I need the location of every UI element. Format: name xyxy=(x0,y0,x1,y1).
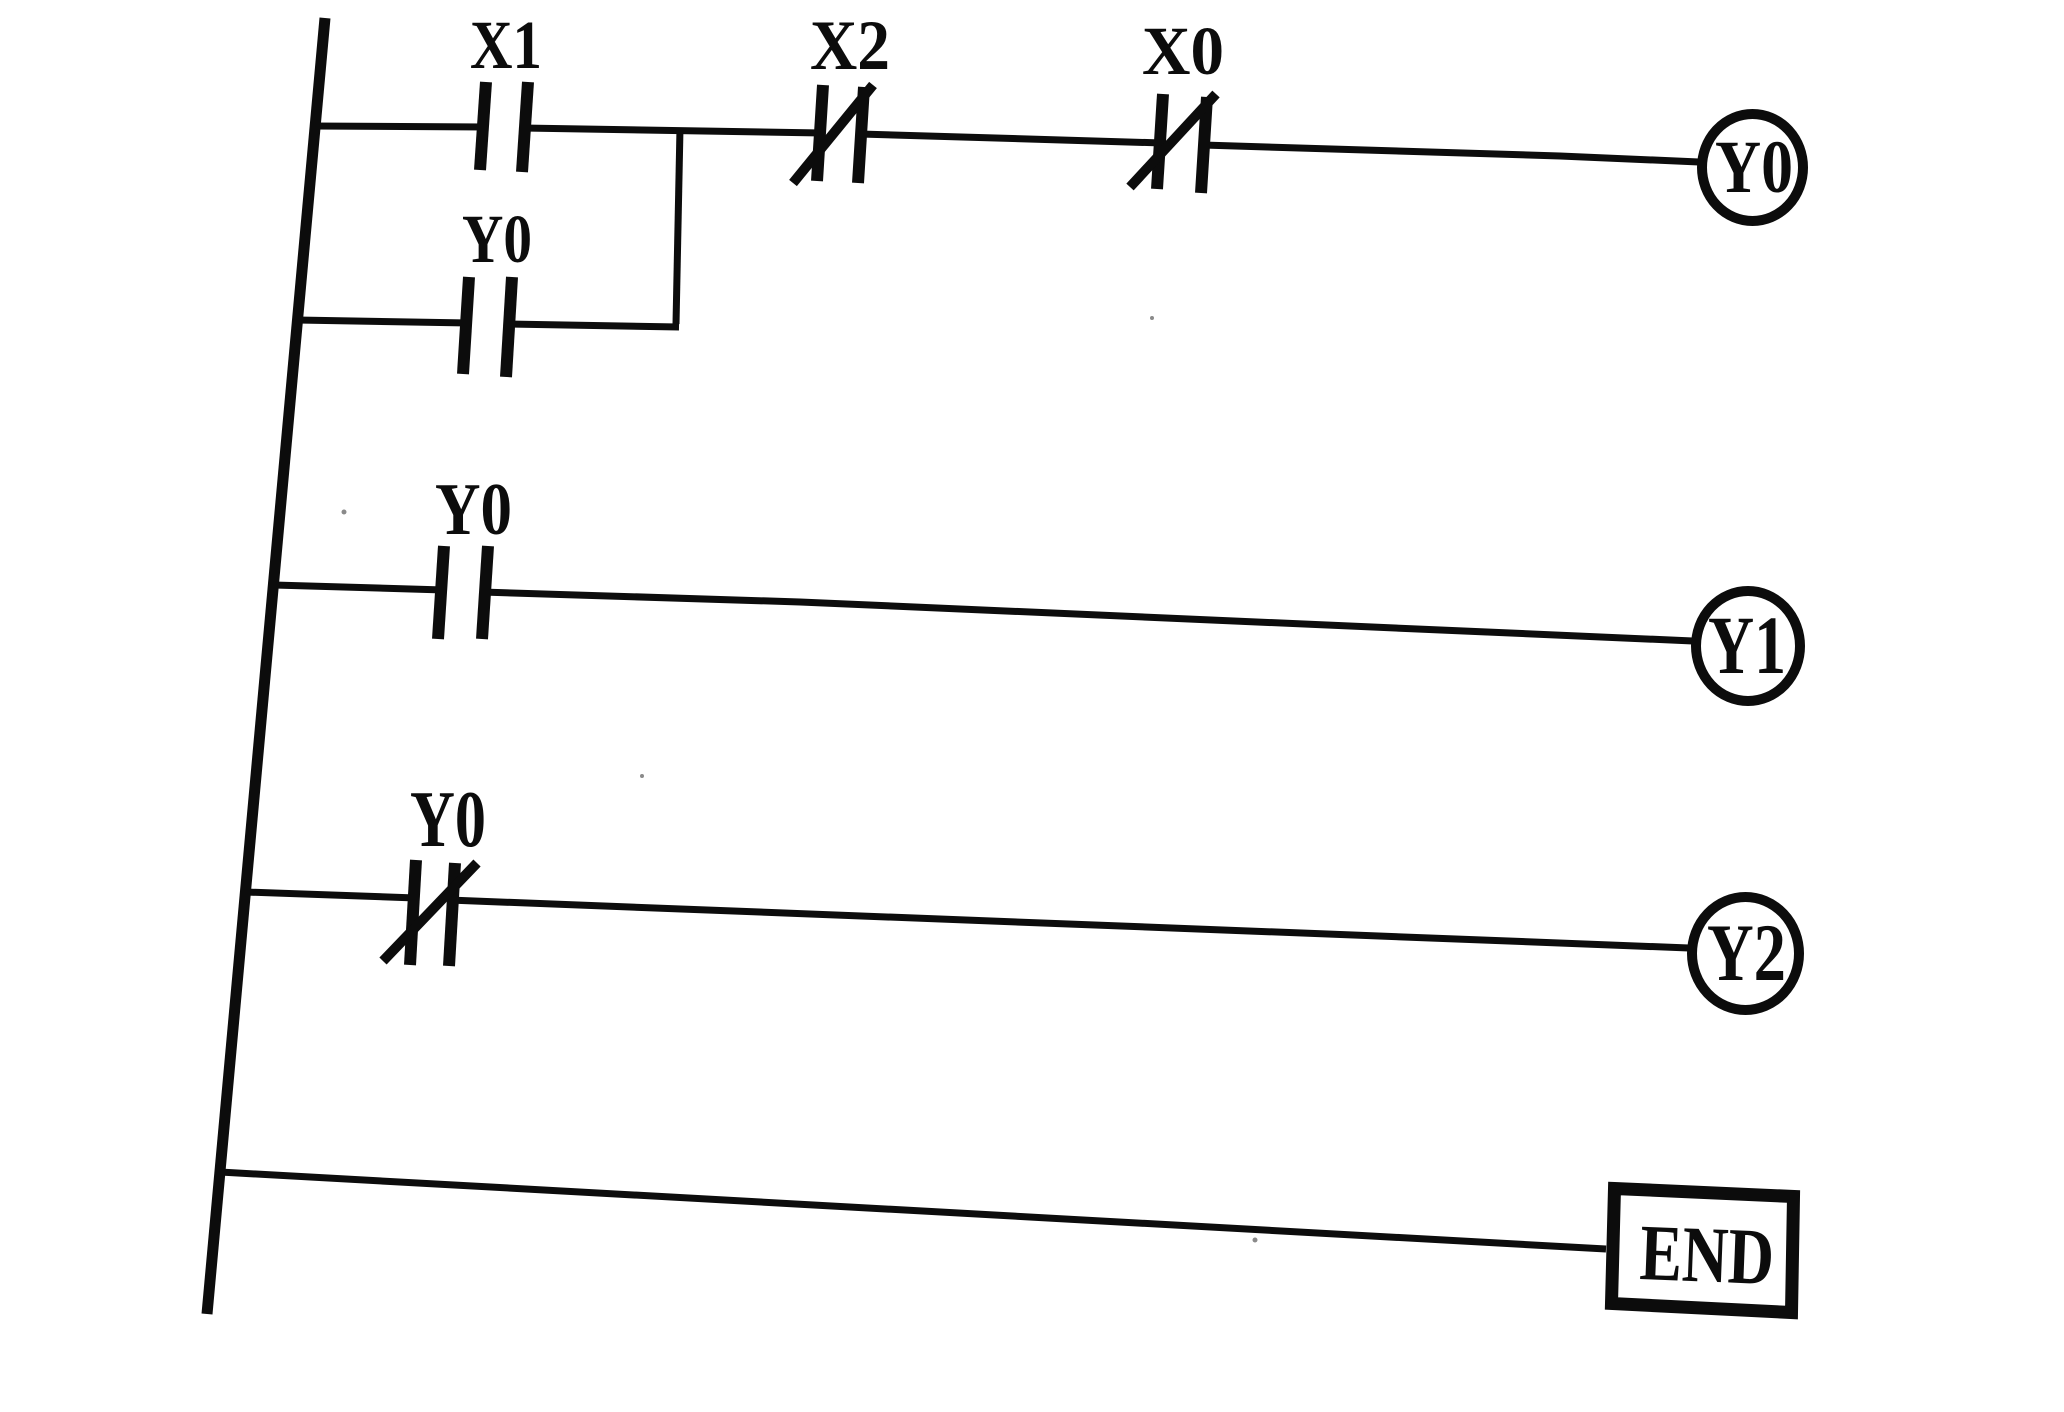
wire rung1 rail to X1 xyxy=(311,126,486,127)
END box xyxy=(1612,1189,1794,1313)
svg-text:Y0: Y0 xyxy=(462,201,532,277)
svg-text:Y0: Y0 xyxy=(435,469,512,551)
wire branch junction vertical xyxy=(676,128,680,324)
contact Y0 (NO) branch xyxy=(463,277,512,377)
svg-text:END: END xyxy=(1638,1209,1775,1302)
svg-text:Y0: Y0 xyxy=(1715,126,1793,209)
coil Y0 xyxy=(1702,114,1803,221)
wire Y0 contact to coil Y2 xyxy=(449,900,1689,948)
svg-text:X0: X0 xyxy=(1142,13,1224,89)
wire X1 to X2 xyxy=(523,128,822,133)
contact Y0 (NC) rung3 xyxy=(383,860,477,966)
svg-text:Y2: Y2 xyxy=(1707,907,1786,998)
svg-text:Y0: Y0 xyxy=(410,776,486,864)
svg-text:X2: X2 xyxy=(810,7,890,85)
wire rung4 rail to END xyxy=(220,1172,1606,1249)
wire branch rail to Y0 contact xyxy=(297,320,469,323)
contact X1 (NO) xyxy=(480,82,528,172)
wire X0 to coil Y0 xyxy=(1203,145,1699,162)
wire rung2 rail to Y0 contact xyxy=(274,585,444,590)
left power rail xyxy=(207,18,325,1314)
svg-text:X1: X1 xyxy=(470,7,542,83)
wire Y0 contact to junction xyxy=(507,324,679,327)
wire X2 to X0 xyxy=(860,134,1162,143)
svg-text:Y1: Y1 xyxy=(1708,599,1786,691)
wire Y0 contact to coil Y1 xyxy=(482,592,1693,641)
coil Y2 xyxy=(1692,897,1799,1010)
coil Y1 xyxy=(1696,591,1800,701)
contact X2 (NC) xyxy=(793,85,873,183)
contact Y0 (NO) rung2 xyxy=(438,546,488,639)
wire rung3 rail to Y0 contact xyxy=(246,892,416,898)
contact X0 (NC) xyxy=(1130,94,1216,193)
